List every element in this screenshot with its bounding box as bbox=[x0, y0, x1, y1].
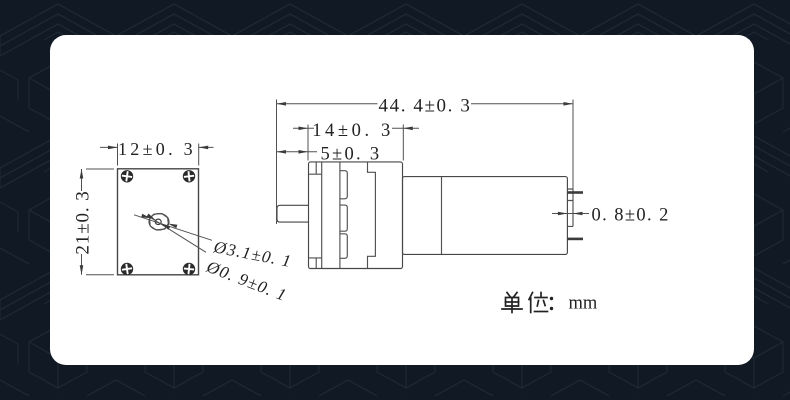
screw bottom-left bbox=[121, 263, 134, 276]
unit note: 单位：mm bbox=[502, 293, 553, 313]
inlet tube bbox=[277, 205, 309, 222]
21 dim arrows bbox=[80, 169, 84, 179]
leader line for dia 3.1 bbox=[134, 215, 212, 241]
5 dim line bbox=[277, 151, 318, 153]
char 位 bbox=[529, 293, 548, 313]
center hub outer ring bbox=[149, 214, 169, 230]
14 dim line bbox=[293, 127, 419, 129]
svg-text:5±0. 3: 5±0. 3 bbox=[321, 145, 382, 165]
fullwidth colon bbox=[550, 297, 553, 310]
svg-text:12±0. 3: 12±0. 3 bbox=[118, 139, 196, 159]
pump head outline bbox=[309, 162, 403, 269]
44.4 dim extension lines bbox=[277, 100, 574, 225]
terminal pin bottom bbox=[567, 238, 583, 241]
svg-text:21±0. 3: 21±0. 3 bbox=[73, 190, 94, 254]
svg-text:mm: mm bbox=[569, 294, 598, 314]
44.4 dim arrows bbox=[277, 102, 287, 106]
middle plate divider bbox=[339, 162, 341, 269]
0.8 dim line bbox=[552, 213, 589, 215]
12 dim extension lines bbox=[118, 144, 199, 166]
hub hexagon bbox=[150, 214, 169, 230]
arrowheads bbox=[80, 102, 583, 275]
gearbox divider bbox=[441, 177, 443, 255]
terminal end cap bbox=[567, 189, 573, 226]
motor body bbox=[403, 177, 568, 255]
front plate corner notches bbox=[309, 162, 322, 269]
terminal pin top bbox=[567, 191, 583, 194]
front plate divider bbox=[321, 162, 323, 269]
dimension texts bbox=[73, 96, 670, 305]
12 dim arrows (outside pointing in) bbox=[108, 146, 118, 150]
valve cover 1 bbox=[340, 171, 347, 199]
char 单 bbox=[502, 293, 522, 313]
white card bbox=[50, 35, 754, 365]
housing step contour bbox=[368, 162, 376, 269]
0.8 dim arrows bbox=[558, 212, 568, 216]
leader line for dia 0.9 bbox=[150, 217, 206, 252]
valve cover 3 bbox=[340, 234, 347, 258]
svg-text:0. 8±0. 2: 0. 8±0. 2 bbox=[592, 205, 670, 225]
12 dim lines bbox=[100, 146, 214, 148]
21 dim line bbox=[81, 169, 83, 275]
44.4 dim line bbox=[277, 103, 574, 105]
screw top-left bbox=[121, 170, 134, 183]
svg-text:14±0. 3: 14±0. 3 bbox=[312, 121, 394, 141]
screw top-right bbox=[183, 170, 195, 182]
14 dim arrows bbox=[299, 127, 309, 131]
dia leader arrows bbox=[141, 214, 151, 220]
14 dim extension lines bbox=[308, 125, 403, 161]
21 dim extension lines bbox=[86, 169, 114, 275]
shaft inner circle bbox=[155, 219, 161, 224]
pump front face outline bbox=[118, 169, 199, 275]
svg-text:44. 4±0. 3: 44. 4±0. 3 bbox=[379, 96, 472, 117]
screw bottom-right bbox=[183, 263, 195, 275]
5 dim arrows bbox=[277, 150, 287, 154]
valve cover 2 bbox=[340, 205, 347, 231]
